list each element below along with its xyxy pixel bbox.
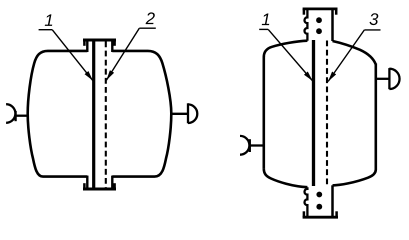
center pipe (solid), item 1 [312, 40, 315, 186]
label 2 leader arrow [106, 28, 139, 80]
bottom neck left wall [86, 176, 88, 188]
top boss valve dot lower [316, 28, 322, 34]
bottom-right shoulder [333, 170, 376, 186]
top neck right wall [111, 41, 113, 52]
top-left shoulder [264, 41, 308, 57]
right fluid port bar [187, 103, 189, 123]
bottom boss cap left tick [303, 211, 306, 217]
label 1 (right) leader arrow [268, 29, 313, 81]
label 1 (left) leader arrow [52, 30, 93, 81]
bottom flange cap right tick [113, 183, 116, 189]
bottom flange cap left tick [83, 183, 86, 189]
top boss right wall [331, 10, 334, 41]
label 1 (right) digit [262, 14, 269, 26]
label 1 (right) underline [259, 28, 268, 30]
top boss cap right tick [335, 9, 338, 15]
top flange cap [83, 39, 116, 42]
vessel body right half [112, 51, 171, 177]
top boss threaded left wall [305, 10, 308, 41]
top-right shoulder [333, 41, 376, 65]
label 3 digit [370, 13, 379, 25]
bottom boss valve dot upper [316, 192, 322, 198]
label 2 digit [146, 12, 155, 24]
left gas fitting stem [16, 115, 29, 117]
center pipe (solid), item 1 [92, 41, 95, 187]
vessel body left half [28, 51, 88, 177]
bottom boss threaded left wall [305, 187, 308, 216]
membrane (dashed), item 3 [326, 41, 328, 187]
bottom-left shoulder [264, 169, 308, 187]
left gas fitting tick [249, 139, 251, 152]
top boss cap [303, 7, 338, 10]
top boss cap left tick [303, 9, 306, 15]
label 1 (left) underline [39, 29, 53, 31]
bottom boss cap right tick [335, 211, 338, 217]
bottom neck right wall [111, 176, 113, 188]
top neck left wall [86, 41, 88, 52]
bottom boss valve dot lower [316, 204, 322, 210]
top flange cap right tick [113, 40, 116, 46]
label 3 leader arrow [328, 30, 364, 82]
left gas fitting tick [14, 111, 16, 121]
left gas fitting arc [6, 104, 15, 123]
membrane (dashed), item 2 [105, 42, 107, 189]
left gas fitting stem [250, 144, 265, 146]
bottom boss cap [303, 216, 338, 219]
label 1 (left) digit [45, 14, 52, 26]
right fluid port bar [388, 68, 390, 89]
label 3 underline [364, 29, 380, 31]
label 2 underline [139, 27, 156, 29]
right wall [374, 64, 377, 170]
top boss valve dot upper [316, 17, 322, 23]
top flange cap left tick [83, 40, 86, 46]
left gas fitting arc [240, 136, 249, 155]
right fluid port dome [188, 104, 197, 123]
bottom boss right wall [331, 185, 334, 216]
right fluid port dome [389, 69, 399, 89]
bottom flange cap [83, 188, 116, 191]
right fluid port stem [377, 78, 390, 80]
right fluid port stem [171, 113, 188, 115]
left wall [262, 57, 265, 169]
